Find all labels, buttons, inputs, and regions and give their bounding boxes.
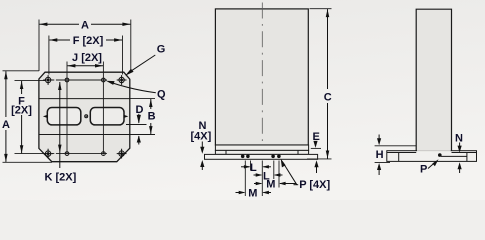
small hole top row left: [65, 78, 69, 82]
screw dot side view: [438, 153, 442, 157]
svg-text:K [2X]: K [2X]: [45, 172, 77, 184]
center hole between slots: [85, 115, 88, 118]
bottom extension line far-right screw: [278, 161, 280, 188]
svg-text:A: A: [81, 19, 89, 31]
slot left: [47, 108, 81, 125]
svg-text:A: A: [2, 119, 10, 131]
svg-text:Q: Q: [157, 89, 166, 101]
recessed line in flange: [441, 155, 467, 157]
vertical dimension F [2X]: dimension line + arrows: [21, 81, 23, 94]
svg-text:[4X]: [4X]: [191, 131, 212, 143]
flange right foot divider: [466, 153, 468, 162]
bottom extension line far-left screw: [244, 161, 246, 197]
dimension F [2X] horizontal: dimension line + arrows: [49, 39, 70, 41]
dimension D: arrows + extension lines: [126, 124, 147, 126]
small hole top row right: [102, 78, 106, 82]
dimension F [2X] horizontal: extension lines: [48, 36, 50, 75]
column outline (left, top, right edges): [416, 9, 451, 151]
small arrow at left slot edge: [43, 115, 48, 118]
centerline through right holes: [102, 62, 104, 154]
dimension K [2X]: dimension line + arrows: [59, 82, 61, 168]
screw P near-left: [246, 155, 250, 159]
screw P near-right: [271, 155, 275, 159]
base flange: [205, 154, 318, 159]
svg-text:J [2X]: J [2X]: [72, 52, 102, 64]
bottom extension centerline: [261, 161, 263, 197]
flange left foot divider: [398, 153, 400, 162]
base plate layer 2: [215, 150, 308, 154]
plate outline: [39, 72, 130, 162]
screw P far-right: [277, 155, 281, 159]
svg-text:C: C: [324, 92, 332, 104]
dimension E: arrows: [315, 142, 317, 144]
vertical dimension F [2X]: extension lines: [15, 80, 46, 82]
svg-text:M: M: [248, 188, 257, 200]
column fill: [416, 9, 451, 151]
vertical centerline: [261, 3, 263, 160]
dimension M row4 (left): arrows + label: [236, 192, 245, 194]
dimension N [4X]: arrows: [201, 142, 203, 152]
svg-text:P: P: [420, 164, 427, 176]
base flange outline: [387, 151, 477, 162]
svg-text:N: N: [455, 133, 463, 145]
dimension E: top extension line: [311, 147, 321, 149]
svg-text:F [2X]: F [2X]: [73, 35, 104, 47]
svg-text:P [4X]: P [4X]: [299, 179, 330, 191]
small hole bottom row left: [65, 152, 69, 156]
dimension C: extension lines: [310, 8, 332, 10]
dimension B: extension lines: [130, 98, 155, 100]
corner hole top-right with crosshair: [117, 75, 127, 85]
dimension M row3 (right): arrows + label: [254, 183, 261, 185]
corner hole top-left with crosshair: [43, 75, 53, 85]
dimension A horizontal: extension lines: [38, 20, 40, 72]
corner hole bottom-right with crosshair: [117, 149, 127, 159]
svg-text:G: G: [157, 44, 166, 56]
svg-text:M: M: [266, 178, 275, 190]
svg-text:D: D: [136, 104, 144, 116]
flange inner lip line right: [452, 152, 477, 154]
dimension B: dimension line + arrows: [150, 99, 152, 109]
body outline: [215, 9, 308, 145]
slot right: [90, 108, 124, 125]
small hole bottom row right: [102, 152, 106, 156]
dimension L row2 (right of centerline): arrows + label: [254, 174, 262, 176]
base layer 2 right foot line: [297, 150, 299, 154]
dimension H: arrows: [378, 135, 380, 139]
dimension H: extension lines: [375, 145, 417, 147]
base layer 2 left foot line: [225, 150, 227, 154]
hole center dash top row: [53, 79, 65, 81]
bottom extension line near-left screw: [250, 161, 252, 171]
inner boss line top: [39, 98, 130, 100]
dimension C: dimension line + arrows: [327, 9, 329, 89]
dimension J [2X] horizontal: dimension line + arrows: [67, 65, 103, 67]
column-to-flange fill patch: [417, 150, 451, 151]
flange inner lip line left: [387, 152, 416, 154]
dimension A horizontal: dimension line + arrows: [39, 23, 79, 25]
svg-text:H: H: [376, 149, 384, 161]
corner hole bottom-left with crosshair: [43, 149, 53, 159]
inner boss line bottom: [39, 134, 130, 136]
svg-text:[2X]: [2X]: [11, 105, 32, 117]
dimension L row1 (left of centerline): arrows + label: [241, 166, 250, 168]
base plate layer 1: [215, 145, 308, 150]
small arrow at right slot edge: [124, 115, 129, 118]
svg-text:B: B: [148, 111, 156, 123]
vertical dimension A: dimension line + arrows: [5, 71, 7, 117]
screw P far-left: [241, 155, 245, 159]
svg-text:L: L: [250, 162, 257, 174]
hole center dash bottom row: [53, 153, 65, 155]
vertical dimension A: extension lines: [3, 70, 40, 72]
bottom extension line near-right screw: [273, 161, 275, 180]
hole center connector line bottom row: [63, 153, 107, 155]
dimension N (side): arrows: [459, 143, 461, 147]
hole center connector line top row: [63, 79, 107, 81]
centerline through left holes (J/K extension): [66, 62, 68, 154]
